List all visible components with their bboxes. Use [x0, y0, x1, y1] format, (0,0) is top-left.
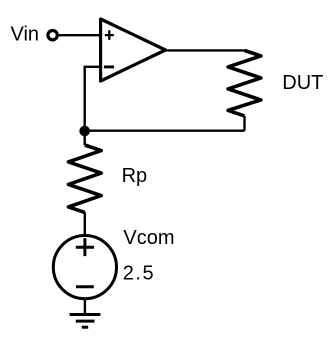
terminal Vin [48, 31, 57, 40]
resistor Rp [68, 145, 101, 212]
wire Vcom bottom to ground [84, 299, 86, 315]
svg-text:2.5: 2.5 [123, 263, 155, 285]
svg-text:Vin: Vin [11, 24, 40, 46]
op-amp U1 [101, 19, 166, 81]
wire node to DUT bottom [85, 129, 245, 131]
op-amp + input marker [105, 30, 114, 40]
voltage source + marker [76, 238, 94, 256]
wire node to Rp top [83, 131, 85, 145]
wire op-amp output to DUT top [166, 49, 245, 51]
svg-text:Rp: Rp [122, 165, 148, 187]
resistor DUT [228, 50, 261, 116]
svg-text:DUT: DUT [282, 72, 323, 94]
wire Vin to op-amp + input [59, 34, 101, 36]
op-amp - input marker [104, 65, 114, 68]
svg-text:Vcom: Vcom [123, 227, 174, 249]
wire DUT bottom lead [243, 116, 245, 131]
voltage source Vcom [53, 236, 116, 299]
wire op-amp inverting input down to node [85, 67, 101, 131]
ground [70, 315, 101, 328]
node junction dot [79, 126, 90, 137]
wire Rp bottom to Vcom source [84, 212, 86, 235]
voltage source - marker [76, 285, 94, 288]
